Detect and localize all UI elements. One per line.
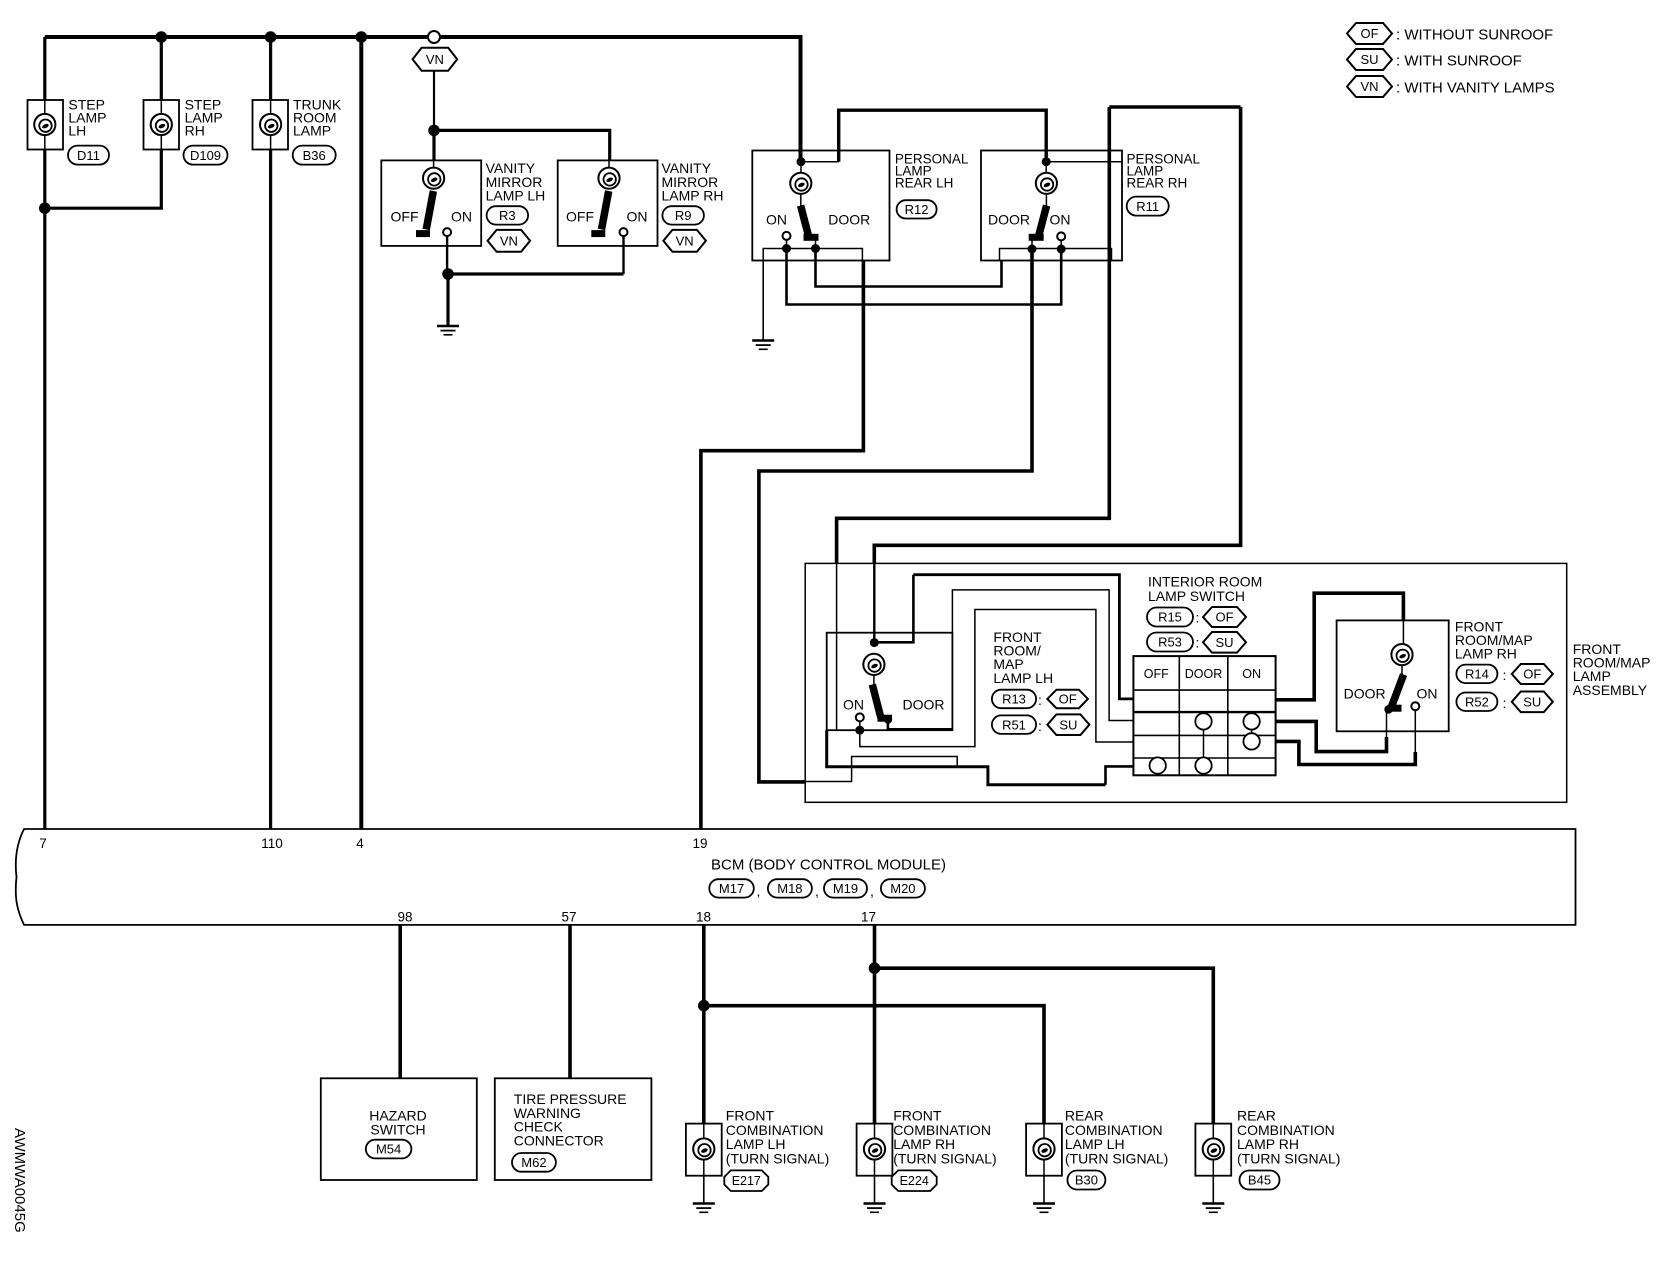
wire grid row2 to front lamp RH DOOR	[1276, 721, 1387, 751]
svg-text:R15: R15	[1158, 610, 1182, 625]
lamp PERSONAL LAMP REAR LH bulb R12	[790, 173, 811, 194]
svg-text::: :	[1038, 718, 1042, 734]
grid position circles	[1150, 713, 1260, 774]
svg-text:DOOR: DOOR	[828, 212, 870, 228]
svg-text:OFF: OFF	[1144, 667, 1169, 681]
wire VN tag down to vanity junction	[433, 71, 435, 131]
svg-text:SWITCH: SWITCH	[370, 1122, 425, 1138]
net tag VN vanity LH	[488, 230, 530, 252]
connector R51	[992, 715, 1036, 734]
svg-text::: :	[1503, 695, 1507, 711]
node front lamp RH DOOR contact	[1384, 705, 1392, 713]
svg-text:R53: R53	[1158, 635, 1182, 650]
net tag SU front lamp RH	[1512, 692, 1553, 713]
connector notch personal LH	[763, 249, 862, 261]
wire personal RH feed to bulb	[1045, 162, 1047, 173]
svg-text:LAMP LH: LAMP LH	[993, 670, 1053, 686]
connector R11	[1127, 197, 1169, 216]
wire top power bus to personal lamp rear LH	[45, 37, 801, 162]
wire step lamp LH down to BCM pin 7	[43, 150, 46, 830]
interior room lamp switch grid	[1133, 656, 1275, 775]
step lamp RH box	[144, 100, 180, 150]
vanity mirror lamp RH box	[558, 160, 658, 246]
wire vanity LH ON contact down	[446, 236, 448, 274]
svg-text:LAMP LH: LAMP LH	[486, 188, 546, 204]
wire personal RH DOOR inside assembly to row4 path	[805, 757, 957, 782]
wire trunk room lamp down to BCM pin 110	[269, 150, 272, 830]
wire T-net right drop to front lamp LH feed	[874, 107, 1240, 563]
svg-text:(TURN SIGNAL): (TURN SIGNAL)	[1065, 1150, 1168, 1166]
lamp VANITY MIRROR LAMP RH bulb R9	[598, 168, 619, 189]
svg-text:B30: B30	[1075, 1173, 1098, 1188]
wire front lamp RH ON lead	[1414, 710, 1416, 753]
svg-text:ON: ON	[843, 697, 864, 713]
wire personal lamps DOOR signal to BCM pin 19	[701, 261, 864, 830]
vanity mirror lamp LH box	[381, 160, 481, 246]
wire front lamp LH bulb feed elbow	[874, 575, 913, 643]
legend tag SU	[1347, 49, 1392, 70]
wire personal RH bulb to lever	[1045, 194, 1047, 206]
switch lever personal lamp rear LH	[801, 206, 819, 239]
wire front combination lamp RH turn signal ground lead	[874, 1176, 876, 1203]
node personal RH lamp feed terminal	[1042, 157, 1051, 166]
node personal LH DOOR terminal	[811, 244, 820, 253]
wire front lamp RH feed internal	[1402, 620, 1404, 644]
svg-text:M18: M18	[777, 881, 802, 896]
svg-text:M17: M17	[719, 881, 744, 896]
connector R12	[897, 200, 937, 218]
wire front lamp LH ON stub	[859, 721, 861, 730]
svg-text:ON: ON	[1242, 667, 1261, 681]
wire pin17 branch to rear combination lamp RH	[875, 968, 1214, 1124]
lamp STEP LAMP LH bulb D11	[34, 114, 55, 135]
lamp rear combination lamp LH turn signal bulb	[1033, 1138, 1054, 1159]
legend tag OF	[1347, 23, 1392, 44]
label PERSONAL LAMP REAR LH	[895, 152, 969, 191]
lamp STEP LAMP RH bulb D109	[151, 114, 172, 135]
label front combination lamp RH turn signal	[893, 1108, 996, 1167]
front room map lamp LH box	[827, 633, 953, 731]
svg-text:R14: R14	[1465, 667, 1489, 682]
wire BCM pin 57 to tire pressure connector	[568, 925, 572, 1078]
svg-text:DOOR: DOOR	[1344, 686, 1386, 702]
label VANITY MIRROR LAMP LH	[486, 160, 546, 204]
switch lever vanity mirror lamp LH	[416, 191, 433, 234]
wire vanity junction into vanity mirror lamp LH	[432, 130, 435, 160]
net tag VN vanity RH	[663, 230, 706, 252]
svg-text::: :	[1038, 692, 1042, 708]
svg-text:AWMWA0045G: AWMWA0045G	[11, 1128, 28, 1233]
lamp front combination lamp LH turn signal bulb	[693, 1138, 714, 1159]
front room map lamp assembly box	[805, 563, 1566, 802]
wire assembly internal feed to front lamp LH bulb	[873, 563, 875, 642]
node personal LH ON terminal	[782, 244, 791, 253]
svg-text::: :	[1503, 667, 1507, 683]
net tag OF interior switch	[1203, 607, 1246, 627]
label HAZARD SWITCH	[369, 1108, 427, 1138]
svg-text:ON: ON	[1050, 212, 1071, 228]
svg-text:R51: R51	[1002, 717, 1026, 732]
label rear combination lamp LH turn signal	[1065, 1108, 1168, 1167]
svg-text:57: 57	[561, 910, 576, 925]
svg-text:M20: M20	[890, 881, 915, 896]
wire T-net top link	[1109, 105, 1240, 109]
svg-text:LAMP: LAMP	[293, 123, 331, 139]
svg-text:7: 7	[39, 836, 47, 851]
contact ON vanity LH	[443, 228, 451, 236]
node junction step lamp ground link	[39, 202, 51, 214]
svg-text:LAMP RH: LAMP RH	[662, 188, 724, 204]
svg-text:110: 110	[261, 836, 283, 851]
wire vanity junction to vanity mirror lamp RH	[434, 130, 610, 160]
wire assembly internal feed to front lamp LH ON	[837, 563, 860, 730]
label TIRE PRESSURE WARNING CHECK CONNECTOR	[514, 1091, 627, 1148]
wire switch grid row4 entry	[1106, 766, 1134, 784]
wire front lamp LH DOOR exit	[888, 720, 953, 730]
wire trunk room lamp internal feed	[270, 100, 272, 114]
wire rear combination lamp LH turn signal bulb internal lead	[1043, 1160, 1045, 1176]
connector R53	[1147, 633, 1193, 652]
svg-text:,: ,	[870, 883, 874, 899]
connector R14	[1456, 665, 1497, 684]
wire step lamp RH internal lead	[160, 135, 162, 150]
svg-text:: WITHOUT SUNROOF: : WITHOUT SUNROOF	[1396, 27, 1553, 44]
svg-text:D11: D11	[77, 148, 100, 163]
svg-text:M62: M62	[521, 1155, 546, 1170]
ground rear combination lamp RH turn signal	[1202, 1204, 1224, 1213]
connector R15	[1147, 608, 1193, 627]
label STEP LAMP LH	[68, 97, 106, 139]
svg-text:(TURN SIGNAL): (TURN SIGNAL)	[726, 1150, 829, 1166]
svg-text:RH: RH	[185, 123, 205, 139]
svg-text:SU: SU	[1523, 694, 1541, 709]
switch lever front room map lamp RH	[1388, 675, 1404, 709]
svg-text:VN: VN	[500, 233, 518, 248]
svg-text:REAR LH: REAR LH	[895, 176, 954, 191]
front room map lamp RH box	[1337, 620, 1449, 731]
svg-text:E217: E217	[732, 1174, 761, 1188]
wire personal RH DOOR contact stub	[1031, 241, 1033, 250]
switch lever personal lamp rear RH	[1029, 206, 1047, 239]
svg-text:(TURN SIGNAL): (TURN SIGNAL)	[893, 1150, 996, 1166]
node personal RH ON terminal	[1057, 245, 1066, 254]
svg-text:VN: VN	[676, 233, 694, 248]
wire front lamp LH bulb to lever	[873, 675, 875, 685]
wire rear combination lamp RH turn signal internal feed	[1212, 1124, 1214, 1139]
connector M62	[512, 1153, 556, 1172]
wire internal personal LH feed link	[801, 161, 839, 163]
wire rear combination lamp LH turn signal internal feed	[1043, 1124, 1045, 1139]
wire front lamp LH DOOR to switch grid row2	[952, 590, 1133, 721]
node front lamp LH bulb feed	[870, 638, 879, 647]
wire front lamp LH case to switch grid row4 path	[827, 730, 1106, 785]
label front combination lamp LH turn signal	[726, 1108, 829, 1167]
rear combination lamp RH turn signal box	[1195, 1124, 1231, 1176]
grid contact links	[1204, 730, 1252, 758]
wire front lamp RH DOOR lead	[1386, 711, 1388, 738]
lamp VANITY MIRROR LAMP LH bulb R3	[423, 168, 444, 189]
node personal LH lamp feed terminal	[797, 157, 806, 166]
ground rear combination lamp LH turn signal	[1033, 1204, 1055, 1213]
label PERSONAL LAMP REAR RH	[1127, 152, 1201, 191]
svg-text:BCM (BODY CONTROL MODULE): BCM (BODY CONTROL MODULE)	[711, 857, 946, 874]
connector E217	[724, 1170, 768, 1191]
connector R3	[487, 206, 528, 224]
wire personal LH ON to personal RH ON link	[787, 249, 1062, 305]
contact ON vanity RH	[620, 228, 628, 236]
connector D109	[184, 146, 228, 165]
trunk room lamp box	[253, 100, 289, 150]
personal lamp rear RH box	[981, 151, 1122, 261]
wire vanity RH ground link	[448, 272, 624, 275]
label STEP LAMP RH	[185, 97, 223, 139]
wire front combination lamp LH turn signal internal feed	[703, 1124, 705, 1139]
svg-text::: :	[1196, 610, 1200, 626]
connector notch personal RH	[1000, 249, 1112, 261]
connector B30	[1067, 1171, 1105, 1190]
connector M19	[824, 879, 867, 897]
svg-text:ON: ON	[627, 209, 648, 225]
lamp TRUNK ROOM LAMP bulb B36	[260, 114, 281, 135]
svg-text:R3: R3	[499, 208, 516, 223]
svg-text:OF: OF	[1523, 667, 1541, 682]
svg-text:E224: E224	[900, 1174, 929, 1188]
svg-text:R9: R9	[675, 208, 692, 223]
hazard switch box	[321, 1078, 477, 1180]
svg-text:VN: VN	[1360, 79, 1378, 94]
svg-text:VN: VN	[426, 52, 444, 67]
wire personal RH DOOR down around to assembly	[759, 249, 1032, 782]
node junction pin18 branch	[698, 1000, 710, 1012]
label TRUNK ROOM LAMP	[293, 97, 342, 139]
svg-text:LAMP RH: LAMP RH	[1455, 646, 1517, 662]
svg-text:ASSEMBLY: ASSEMBLY	[1573, 682, 1648, 698]
wire front combination lamp LH turn signal bulb internal lead	[703, 1160, 705, 1176]
wire grid row3 to front lamp RH ON	[1276, 741, 1416, 764]
wire front lamp LH ON to switch grid row3	[860, 610, 1134, 747]
wire BCM pin 98 to hazard switch	[398, 925, 402, 1078]
wire personal LH ground lead	[762, 261, 764, 340]
wire personal RH ON contact stub	[1060, 240, 1062, 249]
net tag SU front lamp LH	[1047, 714, 1089, 735]
node VN connector circle on top bus	[428, 31, 440, 43]
wire rear combination lamp LH turn signal ground lead	[1043, 1176, 1045, 1203]
wire step lamp LH internal lead	[44, 135, 46, 150]
wire step lamp RH internal feed	[160, 100, 162, 114]
node junction vanity feed split	[428, 125, 440, 137]
wire rear combination lamp RH turn signal bulb internal lead	[1212, 1160, 1214, 1176]
svg-text:ON: ON	[451, 209, 472, 225]
wire step lamp RH to step lamp LH column link	[45, 150, 162, 209]
lamp FRONT ROOM MAP LAMP LH bulb R13	[863, 654, 884, 675]
BCM body control module box	[16, 829, 1576, 925]
contact ON front lamp LH	[856, 713, 864, 721]
lamp PERSONAL LAMP REAR RH bulb R11	[1036, 173, 1057, 194]
svg-text:: WITH SUNROOF: : WITH SUNROOF	[1396, 53, 1522, 70]
node front lamp LH DOOR contact	[884, 715, 892, 723]
ground front combination lamp RH turn signal	[864, 1204, 886, 1213]
svg-text:DOOR: DOOR	[1185, 667, 1223, 681]
svg-text:19: 19	[692, 836, 707, 851]
svg-text:OF: OF	[1059, 692, 1077, 707]
svg-text:R13: R13	[1002, 692, 1026, 707]
label rear combination lamp RH turn signal	[1237, 1108, 1340, 1167]
svg-text:CONNECTOR: CONNECTOR	[514, 1132, 604, 1148]
node junction top bus / step lamp RH	[156, 31, 168, 43]
label VANITY MIRROR LAMP RH	[662, 160, 724, 204]
wire top bus down to BCM pin 4	[359, 37, 363, 829]
contact ON personal LH	[783, 232, 791, 240]
switch lever front room map lamp LH	[872, 685, 892, 719]
front combination lamp LH turn signal box	[686, 1124, 722, 1176]
connector B45	[1240, 1171, 1280, 1190]
svg-text:LH: LH	[68, 123, 86, 139]
svg-text:DOOR: DOOR	[988, 212, 1030, 228]
svg-text:ON: ON	[1417, 686, 1438, 702]
ground vanity lamps	[437, 326, 459, 335]
svg-text:REAR RH: REAR RH	[1127, 176, 1188, 191]
tire pressure warning check connector box	[495, 1078, 652, 1180]
svg-text:R52: R52	[1465, 694, 1489, 709]
wire vanity RH internal feed	[608, 160, 610, 168]
svg-text:(TURN SIGNAL): (TURN SIGNAL)	[1237, 1150, 1340, 1166]
node junction pin17 branch	[869, 962, 881, 974]
connector R9	[662, 206, 704, 224]
svg-text:,: ,	[757, 883, 761, 899]
label INTERIOR ROOM LAMP SWITCH	[1148, 574, 1262, 605]
svg-text:OF: OF	[1215, 610, 1233, 625]
net tag OF front lamp LH	[1047, 690, 1088, 709]
lamp FRONT ROOM MAP LAMP RH bulb R14	[1391, 644, 1412, 665]
svg-text:B36: B36	[303, 148, 326, 163]
wire front combination lamp RH turn signal bulb internal lead	[874, 1160, 876, 1176]
svg-text:R12: R12	[905, 202, 929, 217]
wire internal personal RH feed link	[1046, 161, 1122, 163]
node personal RH DOOR terminal	[1028, 245, 1037, 254]
node junction vanity grounds	[442, 268, 454, 280]
wire pin18 branch to rear combination lamp LH	[704, 1006, 1044, 1124]
svg-text:SU: SU	[1215, 635, 1233, 650]
wire personal LH to personal RH power link	[839, 110, 1046, 162]
step lamp LH box	[28, 100, 64, 150]
connector M20	[881, 879, 925, 897]
node front lamp LH ON terminal	[855, 726, 864, 735]
wire top bus down to step lamp LH	[43, 37, 46, 100]
connector E224	[892, 1170, 937, 1191]
connector B36	[293, 146, 336, 165]
wire front combination lamp LH turn signal ground lead	[703, 1176, 705, 1203]
connector M18	[768, 879, 812, 897]
connector R13	[992, 690, 1036, 709]
node junction top bus / trunk room lamp	[265, 31, 277, 43]
front combination lamp RH turn signal box	[857, 1124, 893, 1176]
wire grid row1 to front lamp RH feed	[1276, 593, 1404, 700]
contact ON front lamp RH	[1411, 702, 1419, 710]
contact ON personal RH	[1057, 232, 1065, 240]
net tag SU interior switch	[1203, 632, 1246, 653]
wire vanity junction down to ground	[446, 274, 449, 325]
svg-text:DOOR: DOOR	[903, 697, 945, 713]
label FRONT ROOM MAP LAMP RH	[1455, 619, 1533, 662]
wire T-net left drop to assembly	[837, 107, 1110, 563]
svg-text:M19: M19	[833, 881, 858, 896]
svg-text:OFF: OFF	[391, 209, 419, 225]
svg-text::: :	[1196, 635, 1200, 651]
wire front lamp RH bulb to lever	[1401, 665, 1403, 675]
svg-text:SU: SU	[1059, 717, 1077, 732]
wire personal LH DOOR contact stub	[815, 241, 817, 249]
personal lamp rear LH box	[752, 151, 889, 261]
svg-text:M54: M54	[376, 1142, 401, 1157]
svg-text:SU: SU	[1360, 52, 1378, 67]
svg-text:LAMP SWITCH: LAMP SWITCH	[1148, 588, 1245, 604]
svg-text:: WITH VANITY LAMPS: : WITH VANITY LAMPS	[1396, 80, 1555, 97]
wire trunk room lamp internal lead	[270, 135, 272, 150]
wire personal LH feed to bulb	[800, 162, 802, 173]
svg-text:R11: R11	[1136, 199, 1159, 214]
node junction top bus / BCM pin 4 drop	[356, 31, 368, 43]
wire top bus down to trunk room lamp	[269, 37, 272, 100]
svg-text:OFF: OFF	[566, 209, 594, 225]
wire step lamp LH internal feed	[44, 100, 46, 114]
wire vanity RH ON contact down	[622, 236, 624, 274]
wire rear combination lamp RH turn signal ground lead	[1212, 1176, 1214, 1203]
wire personal LH bulb to lever	[800, 194, 802, 206]
wire BCM pin 17 to front combination lamp RH	[873, 925, 877, 1124]
svg-text:,: ,	[815, 883, 819, 899]
net tag OF front lamp RH	[1512, 664, 1553, 684]
svg-text:D109: D109	[190, 148, 221, 163]
svg-text:OF: OF	[1360, 26, 1378, 41]
svg-text:4: 4	[356, 836, 364, 851]
label FRONT ROOM MAP LAMP ASSEMBLY	[1573, 641, 1651, 698]
net tag VN on vanity feed	[413, 48, 458, 71]
label FRONT ROOM MAP LAMP LH	[993, 629, 1053, 686]
ground front combination lamp LH turn signal	[693, 1204, 715, 1213]
ground personal lamp LH	[752, 341, 774, 350]
svg-text:B45: B45	[1248, 1173, 1271, 1188]
svg-text:17: 17	[861, 910, 876, 925]
svg-text:18: 18	[696, 910, 711, 925]
switch lever vanity mirror lamp RH	[591, 191, 608, 234]
wire top bus down to step lamp RH	[160, 37, 163, 100]
svg-text:98: 98	[397, 910, 412, 925]
wire vanity LH internal feed	[433, 160, 435, 168]
rear combination lamp LH turn signal box	[1026, 1124, 1062, 1176]
svg-text:ON: ON	[766, 212, 787, 228]
connector M17	[709, 879, 754, 897]
connector D11	[68, 146, 109, 165]
connector M54	[366, 1140, 412, 1159]
wire personal LH DOOR to personal RH connector	[816, 249, 1002, 287]
lamp rear combination lamp RH turn signal bulb	[1203, 1138, 1224, 1159]
wire front combination lamp RH turn signal internal feed	[874, 1124, 876, 1139]
connector R52	[1456, 693, 1497, 712]
wire personal LH ON contact stub	[786, 240, 788, 249]
lamp front combination lamp RH turn signal bulb	[864, 1138, 885, 1159]
wire BCM pin 18 to front combination lamp LH	[702, 925, 706, 1124]
wire front lamp LH feed to switch grid row1	[913, 575, 1133, 699]
legend tag VN	[1347, 76, 1392, 97]
